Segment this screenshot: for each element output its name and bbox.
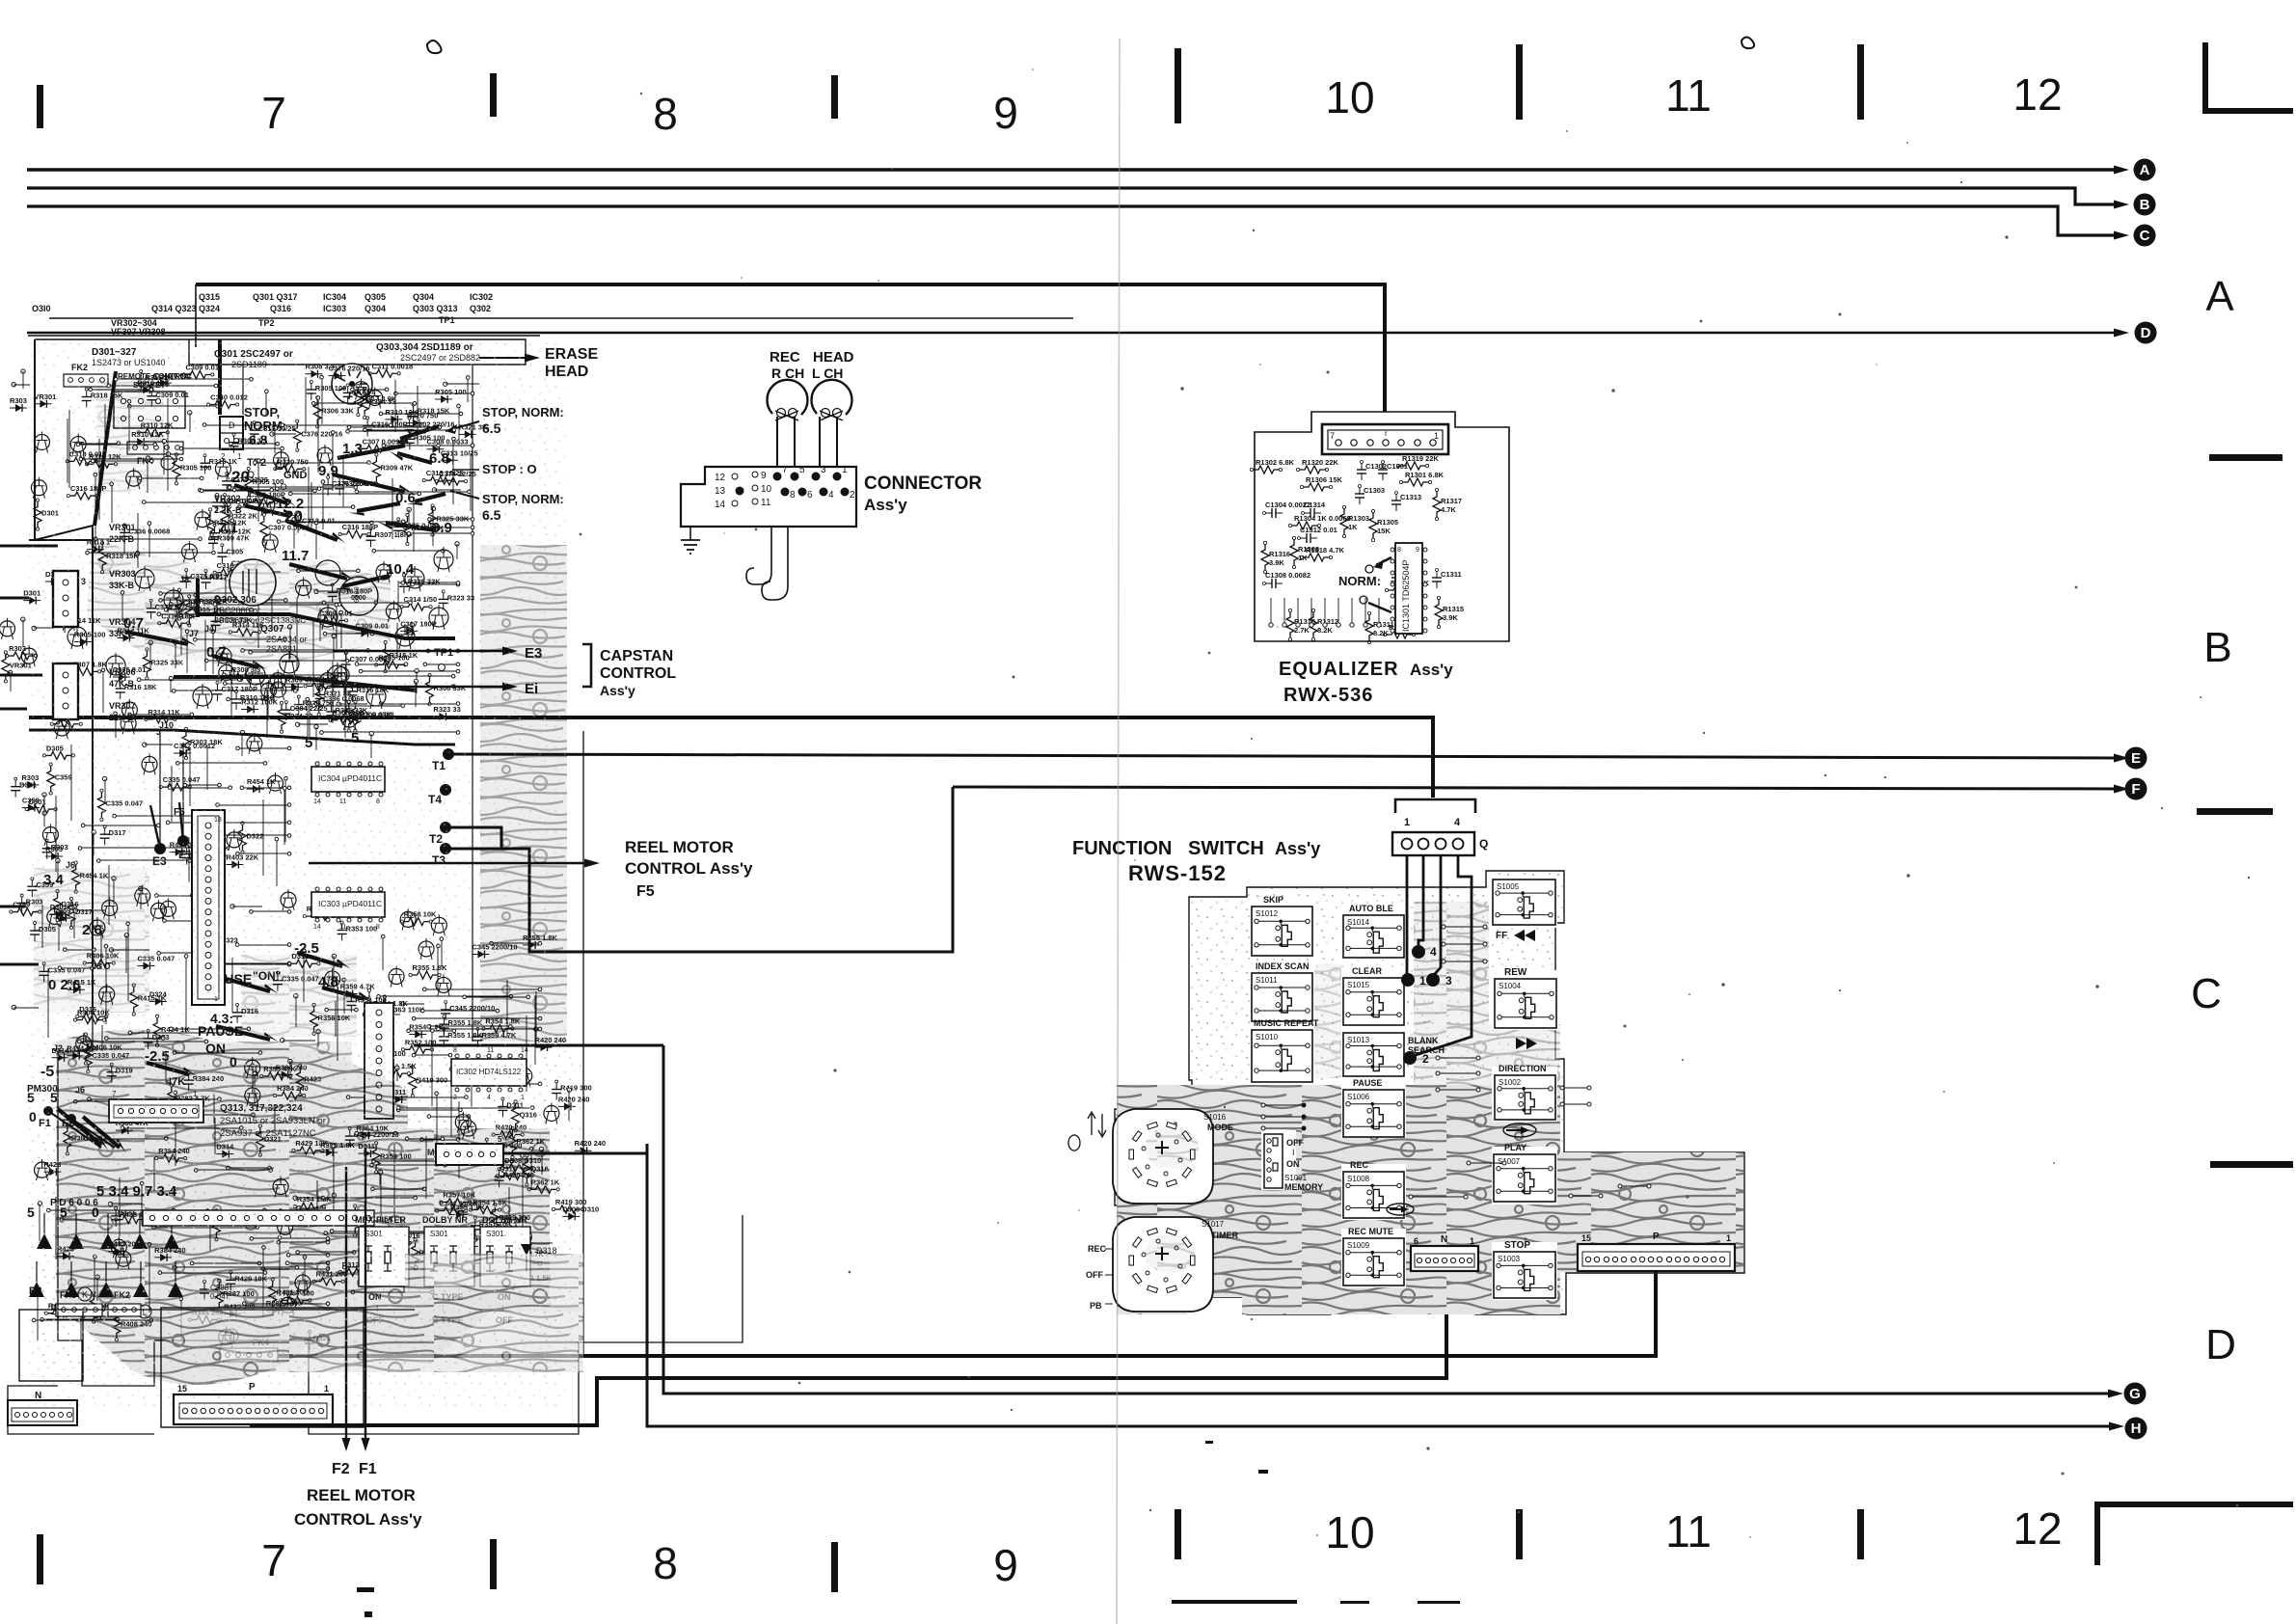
switch MUSIC REPEAT S1010 — [1252, 1018, 1319, 1082]
extra transistors mid — [68, 547, 453, 709]
svg-text:1: 1 — [842, 465, 848, 475]
wire T2 bundle — [446, 827, 501, 849]
svg-text:E: E — [2131, 750, 2141, 767]
svg-text:IC304: IC304 — [323, 292, 346, 302]
page ruler bottom — [37, 1503, 2063, 1592]
svg-text:Q315: Q315 — [199, 292, 220, 302]
svg-text:A: A — [2140, 162, 2150, 178]
rotary MODE S1016 — [1113, 1109, 1233, 1204]
bold voltage numbers — [27, 441, 452, 1220]
svg-text:FF: FF — [1496, 931, 1507, 941]
svg-text:DIRECTION: DIRECTION — [1499, 1064, 1547, 1073]
wire G — [663, 1045, 2118, 1394]
equalizer NORM arrows — [1338, 557, 1391, 612]
remote control socket — [114, 372, 191, 428]
svg-text:r: r — [1385, 429, 1388, 438]
svg-text:Ass'y: Ass'y — [1410, 661, 1453, 679]
svg-text:P: P — [1653, 1232, 1660, 1242]
svg-text:9: 9 — [1416, 547, 1419, 554]
svg-text:CAPSTAN: CAPSTAN — [600, 648, 673, 664]
svg-text:VF307 VR308: VF307 VR308 — [111, 327, 166, 337]
svg-text:4: 4 — [828, 490, 834, 501]
reel motor control arrow — [309, 862, 590, 865]
node A — [2134, 159, 2156, 181]
motor circle — [332, 364, 372, 404]
svg-text:D: D — [2205, 1321, 2236, 1368]
svg-text:PAUSE: PAUSE — [1353, 1078, 1382, 1088]
svg-text:9: 9 — [761, 471, 767, 481]
svg-text:7: 7 — [1330, 431, 1335, 441]
svg-text:S1001: S1001 — [1284, 1174, 1308, 1182]
svg-text:F2: F2 — [332, 1461, 350, 1477]
head wires down to connector — [777, 417, 837, 474]
P connector left pcb — [174, 1382, 333, 1424]
svg-text:S1012: S1012 — [1256, 909, 1279, 918]
svg-text:CONNECTOR: CONNECTOR — [864, 474, 982, 494]
svg-text:R1320 22K: R1320 22K — [1302, 458, 1339, 467]
node 2 — [1403, 1051, 1417, 1065]
svg-text:CLEAR: CLEAR — [1352, 966, 1382, 976]
section divider dash right 2 — [2197, 808, 2273, 815]
svg-text:Q314 Q323: Q314 Q323 — [151, 304, 197, 313]
wire P-line — [250, 1271, 1656, 1356]
svg-text:8.2K: 8.2K — [1373, 629, 1389, 637]
svg-text:REEL MOTOR: REEL MOTOR — [307, 1486, 416, 1504]
svg-text:B: B — [2203, 624, 2231, 671]
page ruler top — [37, 44, 2063, 139]
big circle left — [230, 559, 276, 606]
switch REC S1008 — [1343, 1160, 1404, 1218]
PM300 connector — [27, 1084, 203, 1123]
switch SKIP S1012 — [1252, 895, 1312, 956]
svg-text:RWS-152: RWS-152 — [1128, 861, 1227, 885]
svg-text:15: 15 — [1581, 1233, 1591, 1243]
svg-text:11: 11 — [1665, 1506, 1712, 1556]
upper schematic scatter — [66, 362, 488, 573]
svg-text:10: 10 — [1325, 72, 1374, 122]
F2 F1 arrows — [345, 1167, 347, 1443]
wire D — [27, 332, 2120, 335]
svg-text:O3I0: O3I0 — [32, 304, 51, 313]
svg-text:REC: REC — [770, 349, 800, 365]
heavy internal outlines — [174, 339, 455, 690]
svg-text:5: 5 — [799, 465, 805, 475]
dust marks top — [427, 41, 442, 53]
connector pins left — [715, 471, 772, 510]
svg-text:C1308 0.0082: C1308 0.0082 — [1265, 571, 1310, 580]
T nodes — [443, 748, 454, 760]
mid band scatter (between upper and T rows) — [228, 664, 467, 758]
svg-text:R1312: R1312 — [1317, 617, 1338, 626]
C388 cap — [203, 1283, 205, 1289]
page corner mark top-right — [2202, 42, 2293, 114]
svg-text:8: 8 — [1397, 547, 1401, 554]
wire N-line — [250, 1271, 1446, 1425]
svg-text:S1007: S1007 — [1498, 1157, 1521, 1166]
wire T3 bundle — [446, 787, 953, 952]
far left scatter — [0, 369, 82, 1010]
wire to equalizer — [196, 284, 1385, 427]
switch PAUSE S1006 — [1343, 1078, 1404, 1137]
svg-text:S1011: S1011 — [1256, 976, 1278, 985]
svg-text:REC: REC — [1088, 1244, 1107, 1254]
left edge connector boxes — [53, 571, 86, 719]
svg-text:8: 8 — [653, 1538, 678, 1588]
svg-text:D: D — [2141, 325, 2151, 341]
section divider dash right 1 — [2209, 454, 2282, 461]
svg-text:3.9K: 3.9K — [1269, 558, 1284, 567]
svg-text:A: A — [2205, 273, 2234, 320]
switch CLEAR S1015 — [1343, 966, 1404, 1025]
wire F — [953, 787, 2120, 789]
svg-text:R1302 6.8K: R1302 6.8K — [1256, 458, 1295, 467]
scan speckle overlays — [29, 338, 569, 1408]
svg-text:2: 2 — [1422, 1052, 1429, 1066]
IC303 box — [311, 887, 385, 931]
left column scatter — [40, 733, 319, 1073]
svg-text:C1303: C1303 — [1364, 486, 1385, 495]
node D — [2135, 322, 2157, 344]
connector tails — [746, 527, 771, 584]
svg-text:C1311: C1311 — [1441, 570, 1462, 579]
switch STOP S1003 — [1494, 1240, 1555, 1298]
vertical connector2 — [365, 1003, 393, 1119]
E3 E1 arrows to capstan — [333, 650, 509, 653]
node 3 — [1426, 973, 1440, 987]
lower left scatter — [35, 1044, 348, 1350]
equalizer bottom pins — [1269, 598, 1381, 627]
FK2 connector top — [64, 363, 108, 387]
svg-text:6: 6 — [1414, 1236, 1418, 1246]
svg-text:FUNCTION: FUNCTION — [1072, 838, 1172, 859]
J labels — [53, 575, 214, 1095]
left edge heavy bits — [0, 546, 58, 964]
diode arrow rows — [29, 1213, 183, 1297]
svg-text:2.7K: 2.7K — [1294, 626, 1310, 635]
svg-text:MODE: MODE — [1207, 1123, 1233, 1132]
svg-text:12: 12 — [2012, 69, 2062, 120]
svg-text:Q303 Q313: Q303 Q313 — [413, 304, 458, 313]
svg-text:S1015: S1015 — [1347, 981, 1370, 989]
wire to function switch connector — [29, 717, 1433, 798]
svg-text:MEMORY: MEMORY — [1284, 1182, 1323, 1192]
node F — [2125, 778, 2147, 800]
svg-text:OFF: OFF — [1086, 1270, 1103, 1280]
svg-text:S1005: S1005 — [1497, 882, 1520, 891]
svg-text:CONTROL Ass'y: CONTROL Ass'y — [625, 859, 753, 878]
svg-text:10: 10 — [1325, 1507, 1374, 1557]
left pcb outline upper — [29, 339, 583, 1356]
svg-text:15K: 15K — [1377, 527, 1391, 535]
node B — [2134, 194, 2156, 216]
svg-text:7: 7 — [261, 88, 286, 138]
N connector enclosure — [19, 1310, 83, 1381]
mode arrows left — [1068, 1112, 1106, 1150]
Q connector — [1392, 817, 1488, 855]
svg-text:R1319 22K: R1319 22K — [1402, 454, 1440, 463]
second heavy outline line — [29, 730, 455, 744]
svg-text:Q302: Q302 — [470, 304, 491, 313]
svg-text:4: 4 — [1454, 817, 1461, 828]
svg-text:S1004: S1004 — [1499, 982, 1522, 990]
svg-text:S1006: S1006 — [1347, 1093, 1370, 1101]
VR labels — [109, 494, 242, 722]
Q connector bracket — [1395, 799, 1475, 813]
erase head label — [479, 357, 532, 359]
svg-text:C: C — [2140, 228, 2150, 244]
equalizer components — [1250, 454, 1464, 644]
connector assy outline — [681, 467, 856, 527]
left pcb bottom outline — [8, 1008, 743, 1434]
svg-text:S1013: S1013 — [1347, 1036, 1370, 1044]
svg-text:TIMER: TIMER — [1211, 1231, 1238, 1240]
N connector — [1411, 1234, 1478, 1271]
svg-text:C1313: C1313 — [1400, 493, 1421, 501]
svg-text:12: 12 — [715, 473, 726, 483]
function switch board outline — [1115, 871, 1744, 1314]
svg-text:Q301 Q317: Q301 Q317 — [253, 292, 298, 302]
svg-text:F1: F1 — [359, 1461, 377, 1477]
svg-text:BLANK: BLANK — [1408, 1036, 1439, 1045]
svg-text:REC: REC — [1350, 1160, 1369, 1170]
svg-text:NORM:: NORM: — [1338, 574, 1381, 588]
wire C — [27, 206, 2120, 235]
svg-text:R1316: R1316 — [1269, 550, 1290, 558]
svg-text:REW: REW — [1504, 967, 1527, 978]
svg-text:8: 8 — [790, 490, 796, 501]
svg-text:AUTO BLE: AUTO BLE — [1349, 904, 1393, 913]
svg-text:IC1301 TD62504P: IC1301 TD62504P — [1401, 560, 1411, 632]
svg-text:C: C — [2191, 970, 2222, 1017]
svg-text:1: 1 — [1726, 1233, 1731, 1243]
equalizer connector — [1322, 424, 1448, 454]
svg-text:1: 1 — [1470, 1236, 1474, 1246]
P connector (function switch) — [1578, 1232, 1735, 1271]
svg-text:4: 4 — [1430, 945, 1437, 959]
wire M to H riser — [503, 1152, 647, 1155]
svg-text:7: 7 — [782, 465, 788, 475]
svg-text:TP1: TP1 — [439, 315, 455, 325]
svg-text:S1002: S1002 — [1499, 1078, 1522, 1087]
svg-text:S1010: S1010 — [1256, 1033, 1279, 1042]
svg-text:3.9K: 3.9K — [1443, 613, 1458, 622]
switch REC MUTE S1009 — [1343, 1227, 1404, 1286]
svg-text:1: 1 — [1434, 431, 1439, 441]
svg-text:R1305: R1305 — [1377, 518, 1398, 527]
node 1 — [1401, 973, 1415, 987]
switch AUTO BLE S1014 — [1343, 904, 1404, 958]
svg-text:EQUALIZER: EQUALIZER — [1279, 659, 1399, 680]
svg-text:4.7K: 4.7K — [1441, 505, 1456, 514]
switch PLAY S1007 — [1494, 1143, 1555, 1202]
svg-text:F5: F5 — [636, 883, 655, 900]
ground — [681, 527, 700, 554]
svg-text:PB: PB — [1090, 1301, 1102, 1311]
svg-text:REC MUTE: REC MUTE — [1348, 1227, 1393, 1236]
equalizer assy outline — [1255, 412, 1509, 641]
svg-text:G: G — [2129, 1386, 2141, 1402]
svg-text:S1016: S1016 — [1203, 1113, 1227, 1122]
wire A — [27, 168, 2120, 171]
svg-text:Ass'y: Ass'y — [864, 496, 907, 514]
svg-text:Q305: Q305 — [365, 292, 386, 302]
N connector left pcb — [8, 1391, 77, 1425]
svg-text:3: 3 — [821, 465, 826, 475]
svg-text:Q324: Q324 — [199, 304, 220, 313]
svg-text:IC302: IC302 — [470, 292, 493, 302]
svg-text:N: N — [1441, 1234, 1447, 1245]
svg-text:3: 3 — [1445, 974, 1452, 988]
REC HEAD labels — [770, 349, 854, 381]
svg-text:S1003: S1003 — [1498, 1255, 1521, 1263]
connector pins right — [773, 465, 856, 501]
IC302 box — [451, 1047, 528, 1101]
svg-text:R1315: R1315 — [1443, 605, 1464, 613]
node G — [2124, 1383, 2147, 1405]
svg-text:F: F — [2131, 781, 2140, 798]
node 4 — [1412, 945, 1425, 959]
svg-text:L CH: L CH — [812, 365, 843, 381]
svg-text:STOP: STOP — [1504, 1240, 1530, 1251]
svg-text:S1009: S1009 — [1347, 1241, 1370, 1250]
svg-text:MUSIC REPEAT: MUSIC REPEAT — [1254, 1018, 1319, 1028]
page corner mark bottom-right — [2094, 1502, 2293, 1565]
svg-text:14: 14 — [715, 500, 726, 510]
svg-text:1: 1 — [1404, 817, 1410, 828]
IC304 box — [311, 762, 385, 805]
D box — [220, 417, 243, 449]
svg-text:RWX-536: RWX-536 — [1283, 685, 1373, 706]
svg-text:VR301: VR301 — [10, 661, 32, 669]
node C — [2134, 225, 2156, 247]
texture extension to bottom outline — [164, 1307, 583, 1372]
svg-text:R1303: R1303 — [1348, 514, 1369, 523]
wire H — [647, 1144, 2119, 1426]
svg-text:R1317: R1317 — [1441, 497, 1462, 505]
white islands under switches — [1250, 876, 1558, 1300]
svg-text:OFF: OFF — [1286, 1138, 1304, 1148]
mid schematic scatter — [54, 558, 474, 759]
Q wires — [1407, 855, 1472, 1056]
svg-text:1: 1 — [1419, 974, 1426, 988]
svg-text:R1306 15K: R1306 15K — [1306, 475, 1343, 484]
mid lower scatter — [288, 905, 560, 1293]
svg-text:Ass'y: Ass'y — [600, 683, 635, 698]
svg-text:Q304: Q304 — [413, 292, 434, 302]
svg-text:2: 2 — [850, 490, 855, 501]
function switch pcb texture — [1117, 902, 1743, 1314]
node E — [2125, 747, 2147, 770]
rotary TIMER S1017 — [1086, 1217, 1238, 1312]
wire B — [27, 188, 2120, 204]
coil circles — [315, 560, 378, 615]
switch REW S1004 — [1495, 967, 1556, 1049]
18pin vertical connector — [192, 810, 225, 1005]
rec head L channel — [811, 380, 851, 420]
svg-text:R1318 4.7K: R1318 4.7K — [1306, 546, 1345, 555]
switch INDEX SCAN S1011 — [1252, 961, 1312, 1021]
svg-text:C1314: C1314 — [1304, 501, 1326, 509]
svg-text:7: 7 — [261, 1535, 286, 1585]
svg-text:10: 10 — [761, 484, 772, 495]
svg-text:9: 9 — [993, 1540, 1018, 1590]
svg-text:Q316: Q316 — [270, 304, 291, 313]
E3 E1 dots lower — [154, 843, 166, 854]
svg-text:B: B — [2140, 197, 2150, 213]
svg-text:PLAY: PLAY — [1504, 1143, 1526, 1152]
svg-text:CONTROL: CONTROL — [600, 665, 676, 682]
switch S1001 MEMORY — [1264, 1134, 1323, 1192]
svg-text:C1312 0.01: C1312 0.01 — [1300, 526, 1337, 534]
svg-text:HEAD: HEAD — [813, 349, 854, 365]
svg-text:R303: R303 — [10, 396, 27, 405]
svg-text:Ass'y: Ass'y — [1275, 839, 1320, 858]
switch S1005 FF — [1493, 880, 1555, 941]
svg-text:13: 13 — [715, 486, 726, 497]
M connector — [427, 1135, 503, 1165]
svg-text:S1017: S1017 — [1202, 1220, 1225, 1229]
svg-text:TP2: TP2 — [258, 318, 275, 328]
direction oval arrows — [1387, 1123, 1536, 1215]
switch DIRECTION S1002 — [1495, 1064, 1555, 1120]
MPX filter / dolby switches — [355, 1215, 530, 1325]
section divider dash right 3 — [2210, 1161, 2293, 1168]
rec head R channel — [767, 380, 807, 420]
svg-text:8: 8 — [653, 89, 678, 139]
FK4 connector — [127, 442, 183, 470]
svg-text:11: 11 — [1665, 70, 1712, 121]
svg-text:Q: Q — [1479, 837, 1488, 851]
bold pointer arrows — [58, 426, 446, 1148]
wire G riser top — [414, 1044, 663, 1047]
svg-text:SWITCH: SWITCH — [1188, 838, 1264, 859]
left pcb texture lower — [34, 376, 567, 1385]
wire E — [448, 754, 2120, 758]
heavy wire left: E3/E1 риser — [160, 733, 183, 849]
svg-text:H: H — [2131, 1421, 2142, 1437]
svg-text:REEL MOTOR: REEL MOTOR — [625, 838, 734, 856]
svg-text:I: I — [1292, 1148, 1295, 1157]
P connector enclosure — [161, 1308, 364, 1427]
FK3 FK2 connectors bottom — [29, 1286, 151, 1318]
node H — [2125, 1418, 2147, 1440]
svg-text:SKIP: SKIP — [1263, 895, 1283, 905]
svg-text:IC303: IC303 — [323, 304, 346, 313]
long horizontal connector mid-left — [143, 1210, 374, 1226]
component index block — [28, 284, 1073, 347]
D318 — [521, 1244, 532, 1256]
svg-text:ON: ON — [1286, 1159, 1300, 1169]
svg-text:1K: 1K — [1348, 523, 1358, 531]
scan fold line — [1117, 39, 1120, 1624]
bottom edge artifacts — [357, 1441, 1460, 1617]
FK4 bottom — [220, 1329, 278, 1362]
svg-text:INDEX SCAN: INDEX SCAN — [1256, 961, 1310, 971]
svg-text:Q304: Q304 — [365, 304, 386, 313]
svg-text:R CH: R CH — [771, 365, 804, 381]
svg-text:12: 12 — [2012, 1503, 2062, 1554]
svg-text:S1008: S1008 — [1347, 1175, 1370, 1183]
equalizer IC IC1301 TD62504P — [1391, 543, 1427, 634]
svg-text:S1014: S1014 — [1347, 918, 1370, 927]
svg-text:11: 11 — [761, 498, 771, 508]
link lines — [1411, 927, 1649, 1197]
svg-text:CONTROL Ass'y: CONTROL Ass'y — [294, 1510, 422, 1529]
switch S1013 BLANK SEARCH — [1343, 1033, 1445, 1076]
svg-text:R1301 6.8K: R1301 6.8K — [1405, 471, 1445, 479]
svg-text:6: 6 — [807, 490, 813, 501]
svg-text:9: 9 — [993, 88, 1018, 138]
